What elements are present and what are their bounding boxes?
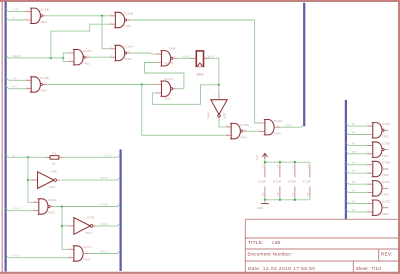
svg-text:GND: GND	[307, 192, 309, 197]
svg-text:7404: 7404	[49, 185, 56, 189]
svg-text:7/10: 7/10	[371, 266, 381, 272]
svg-text:IC23A: IC23A	[274, 119, 283, 123]
wire junction down to IC26A pin 8	[102, 16, 110, 49]
wire IC14B output to IC17A pin 1	[47, 84, 156, 86]
gate IC26B	[110, 12, 133, 29]
wire net /V to IC15B pin 2	[6, 18, 26, 20]
wire IC16C output to IC23A pin 2	[247, 130, 260, 132]
svg-text:Document Number:: Document Number:	[248, 252, 293, 258]
wire net VCE from IC4E output to bus	[95, 224, 119, 226]
svg-text:IC23C: IC23C	[382, 180, 391, 184]
resistor R1	[46, 151, 63, 165]
wire net /VOB from IC16A output to bus	[54, 204, 120, 206]
svg-text:R1: R1	[52, 151, 56, 155]
svg-text:IC23B: IC23B	[382, 161, 391, 165]
power part IC17P VCC pin	[279, 162, 281, 166]
gate IC16C	[226, 123, 249, 140]
svg-text:10: 10	[52, 162, 56, 166]
wire net /DE48 from bus to IC21D	[6, 56, 63, 58]
power part IC23P VCC pin	[309, 162, 311, 166]
power part IC16P GND pin	[264, 186, 266, 197]
page frame left	[1, 0, 3, 274]
svg-text:IC16C: IC16C	[240, 123, 249, 127]
svg-text:IC17A: IC17A	[164, 77, 173, 81]
gate IC23C	[367, 180, 390, 197]
wire bus to IC23C pin a	[346, 182, 367, 184]
svg-text:5: 5	[215, 96, 217, 98]
svg-text:13: 13	[383, 147, 386, 149]
svg-text:3: 3	[383, 167, 385, 169]
bottom power rail	[265, 199, 310, 201]
svg-text:/V: /V	[12, 16, 15, 20]
svg-text:IC17B: IC17B	[165, 61, 174, 65]
page frame bottom	[0, 272, 400, 274]
wire net /VD8 from bus to IC17C pin 10	[6, 255, 68, 257]
svg-text:7402: 7402	[83, 61, 90, 65]
wire VCC to top rail	[264, 159, 266, 163]
wire IC26A output to IC17B pin 4	[131, 53, 156, 54]
gate IC14B	[26, 76, 49, 93]
wire to IC4E input	[62, 225, 68, 227]
svg-text:7404: 7404	[85, 231, 92, 235]
wire bus to IC28D pin b	[346, 151, 367, 153]
svg-text:IC23D: IC23D	[382, 199, 391, 203]
svg-text:GND: GND	[262, 192, 264, 197]
svg-text:IC28C: IC28C	[382, 122, 391, 126]
junction dots bottom rail	[264, 199, 266, 201]
svg-text:/A4: /A4	[12, 85, 17, 89]
junction node on IC15B output	[101, 15, 103, 17]
svg-text:TITLE:: TITLE:	[248, 240, 264, 246]
svg-text:GND: GND	[292, 192, 294, 197]
page frame right	[398, 0, 400, 274]
svg-text:2: 2	[156, 91, 158, 93]
svg-text:/VGH: /VGH	[207, 55, 214, 58]
wire junction down to IC17C pin 1	[62, 207, 68, 250]
title block frame	[245, 219, 398, 272]
wire bus to IC23C pin b	[346, 190, 367, 192]
svg-text:VCC: VCC	[255, 155, 259, 161]
wire bus to IC23D pin a	[346, 201, 367, 203]
svg-text:IC8C: IC8C	[223, 111, 227, 119]
gate IC17B	[156, 47, 177, 66]
power part IC16P VCC pin	[264, 162, 266, 166]
junction at inverter IC4F input	[27, 179, 29, 181]
svg-text:/RC8: /RC8	[100, 250, 108, 254]
wire net /A5 to IC14B pin 1	[6, 78, 26, 80]
svg-text:/A5: /A5	[12, 76, 17, 80]
wire net /VER from IC23A output to bus	[280, 125, 303, 127]
svg-text:IC16A: IC16A	[48, 198, 57, 202]
wire bus to IC23B pin b	[346, 171, 367, 173]
svg-text:IC14B: IC14B	[40, 76, 49, 80]
wire bus to IC28C pin b	[346, 132, 367, 134]
wire to IC4F input	[28, 179, 32, 181]
svg-text:c45: c45	[272, 240, 280, 246]
wire junction down to IC16C pin 14	[142, 85, 226, 136]
junction on /VGH vertical	[218, 84, 220, 86]
top power rail	[265, 161, 310, 163]
wire net /VOF to IC15B pin 1	[6, 9, 26, 11]
gate IC15B	[26, 8, 49, 25]
gate IC26A	[110, 45, 133, 62]
junction on IC14B output net	[141, 83, 143, 85]
svg-text:VCC: VCC	[277, 163, 279, 168]
svg-text:/DE48: /DE48	[12, 54, 21, 58]
svg-text:7402: 7402	[382, 154, 389, 158]
svg-text:1: 1	[156, 82, 158, 84]
svg-text:7400: 7400	[164, 97, 171, 101]
power part IC17P GND pin	[279, 186, 281, 197]
svg-text:/VD42: /VD42	[12, 207, 21, 211]
svg-text:/RCE: /RCE	[100, 176, 108, 180]
svg-text:Date:: Date:	[248, 266, 260, 272]
wire net /VD42 from bus to IC16A pin 2	[6, 208, 33, 210]
wire net /A4 to IC14B pin 2	[6, 86, 26, 88]
bus bar upper-right	[303, 3, 305, 126]
wire bus to IC23D pin b	[346, 210, 367, 212]
svg-text:/VD8: /VD8	[12, 254, 20, 258]
wire /VGH branch to IC17A pin 2	[152, 85, 218, 105]
svg-text:VCC: VCC	[307, 163, 309, 168]
power part IC28P GND pin	[294, 186, 296, 197]
svg-text:IC23P: IC23P	[303, 179, 311, 183]
svg-text:7402: 7402	[40, 89, 47, 93]
svg-text:7402: 7402	[48, 211, 55, 215]
wire net /RC8 from IC17C output to bus	[89, 251, 119, 253]
wire net /VCR from R1 to bus	[63, 155, 120, 157]
wire net /H from bus to resistor R1	[6, 155, 46, 157]
bus bar mid-left	[119, 150, 121, 272]
page frame top	[0, 0, 400, 2]
svg-text:IC26A: IC26A	[124, 45, 133, 49]
svg-text:VCE: VCE	[101, 222, 108, 226]
svg-text:/VER: /VER	[285, 124, 292, 127]
power part IC28P VCC pin	[294, 162, 296, 166]
gate IC28C	[367, 122, 390, 139]
gate IC23A	[259, 119, 282, 135]
gate IC28D	[367, 141, 390, 158]
svg-text:7408: 7408	[382, 212, 389, 216]
svg-text:IC4F: IC4F	[50, 170, 57, 174]
gate IC17C	[68, 245, 91, 262]
inverter IC4F	[32, 170, 60, 190]
wire net /VGH from JPM2 to inverter IC8C	[210, 58, 219, 93]
wire junction down left rail	[28, 157, 33, 202]
power symbol VCC	[255, 153, 267, 160]
wire split to IC21D pin 11	[63, 53, 68, 58]
inverter IC8C pointing down	[207, 93, 228, 121]
junction on /DE48 wire	[50, 57, 52, 59]
svg-text:7402: 7402	[124, 57, 131, 61]
svg-text:/VCR: /VCR	[104, 153, 112, 157]
svg-text:12.03.2019 17:55:50: 12.03.2019 17:55:50	[263, 266, 316, 272]
gate IC23D	[367, 199, 390, 216]
svg-text:IC15B: IC15B	[40, 8, 49, 12]
wire IC15B output to IC26B pin 5	[47, 15, 110, 17]
svg-text:7404: 7404	[207, 112, 211, 119]
wire IC8C output to IC16C pin 12	[219, 121, 226, 127]
svg-text:GND: GND	[277, 192, 279, 197]
svg-text:7408: 7408	[83, 258, 90, 262]
svg-text:7408: 7408	[274, 131, 281, 135]
gate IC17A	[156, 77, 177, 101]
wire IC26B output long run to IC23A pin 1	[131, 20, 259, 123]
svg-text:IC16P: IC16P	[258, 179, 266, 183]
junction at IC21D input split	[62, 57, 64, 59]
svg-text:7400: 7400	[169, 47, 176, 51]
svg-text:11: 11	[383, 206, 386, 208]
gate IC16A	[33, 198, 56, 215]
wire bus to IC28C pin a	[346, 124, 367, 126]
svg-text:IC28D: IC28D	[382, 141, 391, 145]
svg-text:GND: GND	[257, 206, 263, 210]
svg-text:IC4E: IC4E	[87, 215, 94, 219]
bus bar right column	[345, 100, 347, 219]
svg-text:7402: 7402	[124, 24, 131, 28]
svg-text:7402: 7402	[240, 135, 247, 139]
svg-text:REV:: REV:	[381, 252, 393, 258]
svg-text:/VGB: /VGB	[182, 55, 189, 58]
svg-text:JPM2: JPM2	[196, 72, 204, 76]
svg-text:7408: 7408	[382, 173, 389, 177]
junction below /H wire	[27, 156, 29, 158]
wire /DE48 branch up to IC26B pin 6	[51, 24, 110, 58]
svg-text:/H: /H	[12, 153, 15, 157]
svg-text:/VOF: /VOF	[12, 8, 20, 12]
gate IC23B	[367, 161, 390, 178]
bus bar left	[4, 2, 6, 272]
svg-text:6: 6	[383, 186, 385, 188]
wire split to IC21D pin 12	[63, 58, 68, 62]
jumper JPM2	[190, 51, 210, 77]
wire IC17B output to JP1	[177, 57, 190, 59]
wire IC21D output to IC26A pin 9	[89, 56, 110, 58]
inverter IC4E	[68, 215, 96, 235]
svg-text:7402: 7402	[382, 135, 389, 139]
junction at IC4E input	[61, 225, 63, 227]
svg-text:IC21D: IC21D	[83, 49, 92, 53]
svg-text:VCC: VCC	[262, 163, 264, 168]
svg-text:VCC: VCC	[292, 163, 294, 168]
junction dots top rail	[264, 161, 266, 163]
junction on /VOB net	[61, 205, 63, 207]
wire bus to IC23B pin a	[346, 162, 367, 164]
svg-text:7402: 7402	[40, 20, 47, 24]
wire net /RCE from IC4F output to bus	[61, 178, 119, 180]
wire bus to IC28D pin a	[346, 143, 367, 145]
ground symbol GND	[257, 200, 269, 210]
wire IC17A output to IC17B pin 5 cross-couple	[145, 63, 184, 89]
svg-text:IC17P: IC17P	[273, 179, 281, 183]
svg-text:7408: 7408	[382, 193, 389, 197]
power part IC23P GND pin	[309, 186, 311, 197]
svg-text:/VOB: /VOB	[100, 203, 108, 207]
svg-text:Sheet:: Sheet:	[356, 266, 369, 271]
svg-text:IC28P: IC28P	[288, 179, 296, 183]
svg-text:IC26B: IC26B	[124, 12, 133, 16]
svg-text:IC17C: IC17C	[83, 245, 92, 249]
svg-text:10: 10	[383, 128, 386, 130]
gate IC21D	[68, 49, 91, 66]
